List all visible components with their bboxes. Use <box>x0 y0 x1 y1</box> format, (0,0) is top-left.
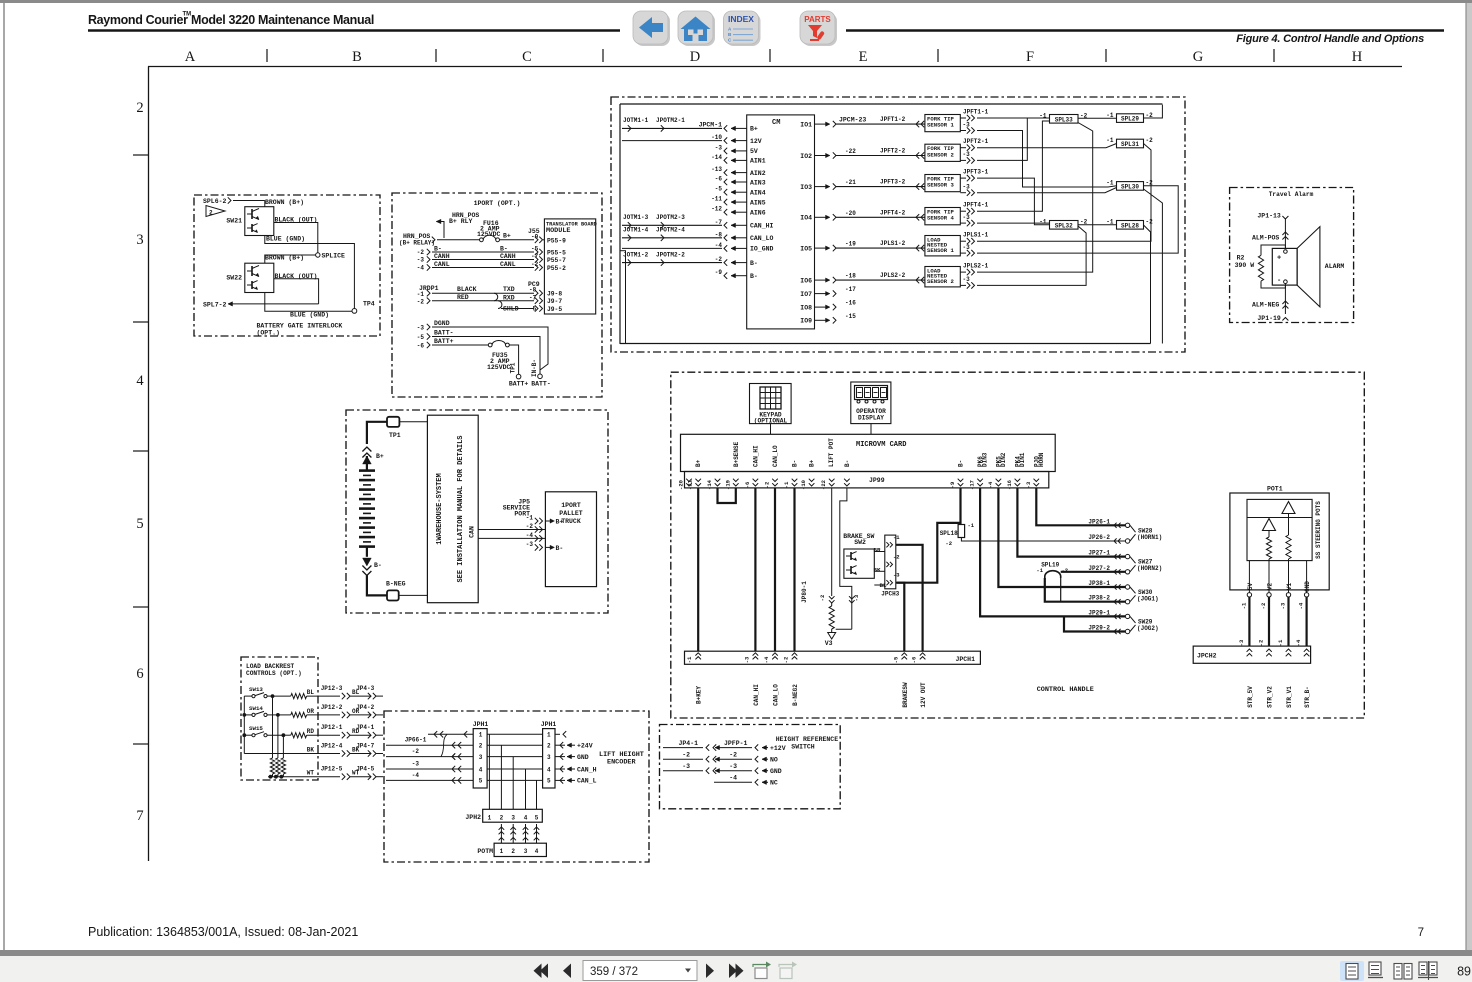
svg-text:-17: -17 <box>969 480 976 490</box>
svg-text:IO6: IO6 <box>800 277 812 284</box>
svg-text:IO5: IO5 <box>800 245 812 252</box>
svg-text:MODULE: MODULE <box>546 227 570 235</box>
svg-text:BATT+: BATT+ <box>434 338 454 345</box>
svg-text:1: 1 <box>500 848 504 855</box>
svg-text:TM: TM <box>183 12 192 18</box>
svg-text:B-: B- <box>556 545 564 552</box>
svg-text:CAN_LO: CAN_LO <box>772 445 779 467</box>
svg-text:JP26-1: JP26-1 <box>1088 518 1110 525</box>
svg-text:4: 4 <box>136 373 144 389</box>
svg-text:-10: -10 <box>711 134 722 141</box>
svg-text:AIN4: AIN4 <box>750 190 766 197</box>
svg-text:B-: B- <box>374 562 382 569</box>
svg-text:125VDC: 125VDC <box>477 231 501 238</box>
svg-text:J9-5: J9-5 <box>547 306 562 313</box>
svg-text:ALARM: ALARM <box>1325 263 1345 270</box>
svg-text:-16: -16 <box>1006 480 1013 490</box>
svg-text:IO3: IO3 <box>800 184 812 191</box>
svg-text:-4: -4 <box>987 481 994 488</box>
svg-text:-2: -2 <box>764 482 771 489</box>
svg-text:DGND: DGND <box>434 320 450 327</box>
svg-text:P55-5: P55-5 <box>547 249 566 256</box>
svg-text:-2: -2 <box>1062 567 1069 574</box>
svg-text:-4: -4 <box>1298 602 1305 609</box>
svg-text:-17: -17 <box>845 286 856 293</box>
svg-text:TP1: TP1 <box>389 432 401 439</box>
svg-text:-18: -18 <box>845 273 856 280</box>
svg-text:-4: -4 <box>715 242 723 249</box>
svg-text:SS STEERING POTS: SS STEERING POTS <box>1315 501 1322 559</box>
svg-text:-3: -3 <box>526 541 534 548</box>
svg-text:JOTM1-4: JOTM1-4 <box>623 227 649 234</box>
svg-text:AIN5: AIN5 <box>750 199 766 206</box>
svg-text:DIN3: DIN3 <box>982 452 989 467</box>
svg-text:SPL19: SPL19 <box>1041 562 1059 569</box>
svg-text:-3: -3 <box>963 276 971 283</box>
svg-text:1WAREHOUSE-SYSTEM: 1WAREHOUSE-SYSTEM <box>436 473 444 544</box>
svg-text:2: 2 <box>500 815 504 822</box>
svg-text:3: 3 <box>136 232 143 248</box>
svg-text:JPFT4-1: JPFT4-1 <box>963 202 989 209</box>
svg-text:(HORN2): (HORN2) <box>1137 565 1162 572</box>
svg-text:SW2: SW2 <box>854 539 866 546</box>
svg-text:CAN_H: CAN_H <box>577 766 597 773</box>
svg-text:BK: BK <box>874 566 881 573</box>
svg-text:PARTS: PARTS <box>804 15 831 24</box>
svg-text:2: 2 <box>136 100 143 116</box>
svg-text:WT: WT <box>307 770 315 777</box>
svg-text:SPL32: SPL32 <box>1055 222 1073 229</box>
svg-text:-2: -2 <box>526 523 534 530</box>
svg-text:BATT-: BATT- <box>434 330 454 337</box>
svg-text:JPFP-1: JPFP-1 <box>724 740 748 747</box>
svg-text:SENSOR 2: SENSOR 2 <box>927 151 954 158</box>
svg-text:SW14: SW14 <box>249 705 263 712</box>
svg-text:-6: -6 <box>715 176 723 183</box>
svg-text:JP29-1: JP29-1 <box>1088 609 1110 616</box>
svg-text:390 W: 390 W <box>1235 262 1255 269</box>
svg-text:5: 5 <box>535 815 539 822</box>
svg-text:STR_5V: STR_5V <box>1247 686 1254 708</box>
svg-text:-2: -2 <box>893 553 900 560</box>
svg-text:CONTROLS (OPT.): CONTROLS (OPT.) <box>246 670 302 677</box>
svg-text:AIN1: AIN1 <box>750 158 766 165</box>
svg-text:JP1-13: JP1-13 <box>1257 213 1281 220</box>
svg-text:-13: -13 <box>711 166 722 173</box>
svg-text:JPLS1-2: JPLS1-2 <box>880 240 906 247</box>
svg-text:5: 5 <box>479 778 483 785</box>
svg-text:B+: B+ <box>750 126 758 133</box>
svg-text:B-: B- <box>958 460 965 467</box>
svg-text:TP1: TP1 <box>510 362 517 373</box>
svg-text:B+: B+ <box>556 519 564 526</box>
svg-text:STR_V1: STR_V1 <box>1286 686 1293 708</box>
svg-text:JPLS1-1: JPLS1-1 <box>963 232 989 239</box>
svg-text:JP38-1: JP38-1 <box>1088 580 1110 587</box>
svg-text:LIFT POT: LIFT POT <box>828 438 835 467</box>
svg-text:JPCH1: JPCH1 <box>955 656 975 663</box>
svg-text:CAN_HI: CAN_HI <box>752 445 759 467</box>
svg-text:-1: -1 <box>1106 112 1114 119</box>
svg-text:-2: -2 <box>1146 219 1154 226</box>
svg-text:NO: NO <box>770 757 778 764</box>
svg-text:JP12-1: JP12-1 <box>321 724 343 731</box>
svg-text:-9: -9 <box>715 269 723 276</box>
svg-text:5V: 5V <box>750 148 758 155</box>
svg-text:4: 4 <box>547 766 551 773</box>
svg-text:SENSOR 4: SENSOR 4 <box>927 215 954 222</box>
svg-text:TRUCK: TRUCK <box>561 518 581 525</box>
svg-text:-21: -21 <box>845 179 856 186</box>
svg-text:SENSOR 1: SENSOR 1 <box>927 122 954 129</box>
svg-text:ALM-POS: ALM-POS <box>1252 235 1279 242</box>
svg-text:-3: -3 <box>715 144 723 151</box>
svg-text:-2: -2 <box>945 540 952 547</box>
svg-text:-3: -3 <box>853 594 860 601</box>
svg-text:-14: -14 <box>706 479 713 490</box>
svg-text:SW13: SW13 <box>249 686 263 693</box>
svg-text:-1: -1 <box>526 515 534 522</box>
svg-text:-2: -2 <box>417 299 425 306</box>
svg-text:LOAD BACKREST: LOAD BACKREST <box>246 663 295 670</box>
svg-text:-2: -2 <box>729 752 737 759</box>
svg-text:IO2: IO2 <box>800 153 812 160</box>
svg-text:-1: -1 <box>1277 639 1284 646</box>
svg-text:JPCH3: JPCH3 <box>881 591 899 598</box>
svg-text:2: 2 <box>209 210 213 217</box>
svg-text:CAN_L: CAN_L <box>577 778 597 785</box>
svg-text:BATTERY GATE INTERLOCK: BATTERY GATE INTERLOCK <box>257 323 343 330</box>
svg-text:-1: -1 <box>968 522 975 529</box>
svg-text:+24V: +24V <box>577 743 593 750</box>
svg-text:STR_B-: STR_B- <box>1304 686 1311 708</box>
svg-text:SW15: SW15 <box>249 725 263 732</box>
svg-text:JPFT3-2: JPFT3-2 <box>880 179 906 186</box>
svg-text:SPLICE: SPLICE <box>322 253 346 260</box>
svg-text:(HORN1): (HORN1) <box>1137 534 1162 541</box>
svg-text:CONTROL HANDLE: CONTROL HANDLE <box>1037 686 1094 694</box>
svg-text:JPH1: JPH1 <box>473 721 489 728</box>
svg-text:IO7: IO7 <box>800 291 812 298</box>
svg-text:2: 2 <box>479 743 483 750</box>
svg-text:-1: -1 <box>1036 567 1043 574</box>
svg-text:PALLET: PALLET <box>559 510 583 517</box>
svg-text:JPOTM2-4: JPOTM2-4 <box>656 227 685 234</box>
svg-text:BK: BK <box>352 747 360 754</box>
svg-text:A: A <box>185 49 196 65</box>
svg-text:4: 4 <box>524 815 528 822</box>
svg-text:P55-7: P55-7 <box>547 257 566 264</box>
svg-text:AIN3: AIN3 <box>750 179 766 186</box>
svg-text:2: 2 <box>511 848 515 855</box>
svg-text:BL: BL <box>307 689 315 696</box>
svg-text:359 / 372: 359 / 372 <box>590 966 638 978</box>
svg-text:Travel Alarm: Travel Alarm <box>1269 191 1314 198</box>
svg-text:B: B <box>352 49 362 65</box>
svg-text:3: 3 <box>547 754 551 761</box>
svg-text:-2: -2 <box>417 249 425 256</box>
svg-text:-2: -2 <box>819 595 826 602</box>
svg-text:JP27-2: JP27-2 <box>1088 565 1110 572</box>
svg-text:ENCODER: ENCODER <box>607 759 636 767</box>
svg-text:SENSOR 3: SENSOR 3 <box>927 182 954 189</box>
svg-text:R2: R2 <box>1237 255 1245 262</box>
svg-text:-5: -5 <box>417 334 425 341</box>
svg-text:-15: -15 <box>845 313 856 320</box>
svg-text:-3: -3 <box>963 151 971 158</box>
svg-text:GND: GND <box>577 754 589 761</box>
svg-text:-20: -20 <box>845 210 856 217</box>
svg-text:G: G <box>1193 49 1204 65</box>
svg-text:CANH: CANH <box>434 253 450 260</box>
svg-text:7: 7 <box>1418 927 1424 939</box>
svg-text:-5: -5 <box>892 656 899 663</box>
svg-text:JP12-2: JP12-2 <box>321 704 343 711</box>
svg-text:RD: RD <box>307 728 315 735</box>
svg-text:B-: B- <box>434 246 442 253</box>
svg-text:SPL18: SPL18 <box>940 530 958 537</box>
svg-text:1PORT (OPT.): 1PORT (OPT.) <box>474 200 521 207</box>
svg-text:SPL28: SPL28 <box>1121 222 1139 229</box>
svg-text:-14: -14 <box>711 154 722 161</box>
svg-text:IO_GND: IO_GND <box>750 246 774 253</box>
svg-text:3: 3 <box>511 815 515 822</box>
svg-text:BATT-: BATT- <box>531 381 551 388</box>
svg-text:-3: -3 <box>417 325 425 332</box>
svg-text:IO9: IO9 <box>800 318 812 325</box>
svg-text:BR: BR <box>874 547 881 554</box>
svg-text:JPCM-23: JPCM-23 <box>839 117 866 124</box>
svg-text:POTM: POTM <box>477 848 493 855</box>
svg-text:JPH1: JPH1 <box>541 721 557 728</box>
svg-text:-3: -3 <box>417 257 425 264</box>
svg-text:-22: -22 <box>820 480 827 490</box>
svg-text:CANH: CANH <box>500 253 516 260</box>
svg-text:-2: -2 <box>1260 603 1267 610</box>
svg-text:-3: -3 <box>729 763 737 770</box>
svg-text:B-: B- <box>500 246 508 253</box>
svg-text:HEIGHT REFERENCE: HEIGHT REFERENCE <box>776 736 839 743</box>
svg-text:DISPLAY: DISPLAY <box>858 415 884 422</box>
svg-text:12V OUT: 12V OUT <box>920 682 927 708</box>
svg-text:JPFT1-1: JPFT1-1 <box>963 108 989 115</box>
svg-text:JP1-19: JP1-19 <box>1257 315 1281 322</box>
svg-text:-3: -3 <box>412 761 420 768</box>
svg-text:-1: -1 <box>893 534 900 541</box>
svg-text:-12: -12 <box>711 206 722 213</box>
svg-text:B-NEG: B-NEG <box>386 581 406 588</box>
svg-text:GND: GND <box>770 768 782 775</box>
svg-text:BATT+: BATT+ <box>509 381 529 388</box>
svg-text:DIN2: DIN2 <box>1000 452 1007 467</box>
svg-text:7: 7 <box>136 808 143 824</box>
svg-text:BLACK: BLACK <box>457 286 477 293</box>
svg-text:(B+ RELAY): (B+ RELAY) <box>399 240 435 247</box>
svg-text:JPFT4-2: JPFT4-2 <box>880 209 906 216</box>
svg-text:BROWN (B+): BROWN (B+) <box>265 199 304 206</box>
svg-text:JPFT2-2: JPFT2-2 <box>880 148 906 155</box>
svg-text:BROWN (B+): BROWN (B+) <box>265 255 304 262</box>
svg-text:-3: -3 <box>963 214 971 221</box>
svg-text:-3: -3 <box>743 656 750 663</box>
svg-text:-1: -1 <box>1240 602 1247 609</box>
svg-text:-10: -10 <box>800 480 807 490</box>
svg-text:JOTM1-1: JOTM1-1 <box>623 117 649 124</box>
svg-text:12V: 12V <box>750 138 762 145</box>
svg-text:DIN1: DIN1 <box>1019 452 1026 467</box>
svg-text:JP99: JP99 <box>869 477 885 484</box>
svg-text:SPL6-2: SPL6-2 <box>203 198 227 205</box>
svg-text:INDEX: INDEX <box>728 14 754 24</box>
svg-text:SPL7-2: SPL7-2 <box>203 302 227 309</box>
svg-text:OR: OR <box>307 708 315 715</box>
svg-text:JOTM1-2: JOTM1-2 <box>623 251 649 258</box>
svg-text:-2: -2 <box>1258 640 1265 647</box>
svg-text:MICROVM CARD: MICROVM CARD <box>856 441 906 449</box>
svg-text:JPFT3-1: JPFT3-1 <box>963 169 989 176</box>
svg-text:IO8: IO8 <box>800 304 812 311</box>
svg-text:5V: 5V <box>1247 583 1254 591</box>
svg-text:-6: -6 <box>417 343 425 350</box>
svg-text:BK: BK <box>307 747 315 754</box>
svg-text:B-: B- <box>844 460 851 467</box>
svg-text:B+: B+ <box>809 459 816 467</box>
svg-text:B-NEG2: B-NEG2 <box>792 684 799 706</box>
svg-text:D: D <box>690 49 700 65</box>
svg-text:AIN2: AIN2 <box>750 170 766 177</box>
svg-text:SEE INSTALLATION MANUAL FOR DE: SEE INSTALLATION MANUAL FOR DETAILS <box>457 435 465 582</box>
svg-text:BLUE (GND): BLUE (GND) <box>290 312 329 319</box>
svg-text:+12V: +12V <box>770 745 786 752</box>
svg-text:SPL33: SPL33 <box>1055 116 1073 123</box>
svg-text:B+: B+ <box>695 459 702 467</box>
svg-text:(JOG1): (JOG1) <box>1137 595 1159 602</box>
svg-text:CAN_HI: CAN_HI <box>750 223 774 230</box>
svg-text:B-: B- <box>750 260 758 267</box>
svg-text:B+: B+ <box>503 233 511 240</box>
svg-text:89: 89 <box>1457 965 1471 979</box>
svg-text:JPH2: JPH2 <box>465 814 481 821</box>
svg-text:3: 3 <box>479 754 483 761</box>
svg-text:SW22: SW22 <box>226 275 242 282</box>
svg-text:2: 2 <box>547 743 551 750</box>
svg-text:3: 3 <box>524 848 528 855</box>
svg-text:F: F <box>1026 49 1034 65</box>
svg-text:-2: -2 <box>412 748 420 755</box>
svg-text:V1: V1 <box>1286 583 1293 591</box>
svg-text:H: H <box>1352 49 1363 65</box>
svg-text:JP12-5: JP12-5 <box>321 766 343 773</box>
svg-text:-3: -3 <box>1238 639 1245 646</box>
svg-text:-21: -21 <box>687 479 694 490</box>
svg-text:E: E <box>859 49 868 65</box>
svg-text:-3: -3 <box>893 572 900 579</box>
svg-text:Figure 4. Control Handle and: Figure 4. Control Handle and Options <box>1236 33 1424 45</box>
svg-text:JP12-3: JP12-3 <box>321 685 343 692</box>
svg-text:CAN: CAN <box>469 526 476 538</box>
svg-text:6: 6 <box>136 666 143 682</box>
svg-text:(OPT.): (OPT.) <box>257 330 280 337</box>
svg-text:AIN6: AIN6 <box>750 210 766 217</box>
svg-text:JP26-2: JP26-2 <box>1088 534 1110 541</box>
svg-text:JP80-1: JP80-1 <box>801 581 808 603</box>
svg-text:POT1: POT1 <box>1267 486 1283 493</box>
svg-text:-4: -4 <box>1295 639 1302 646</box>
svg-text:SPL30: SPL30 <box>1121 183 1139 190</box>
svg-text:P55-2: P55-2 <box>547 265 566 272</box>
svg-text:CAN_LO: CAN_LO <box>750 235 774 242</box>
svg-text:-19: -19 <box>845 241 856 248</box>
svg-text:TP4: TP4 <box>363 301 375 308</box>
svg-text:-: - <box>1277 277 1281 285</box>
svg-text:JPFT1-2: JPFT1-2 <box>880 116 906 123</box>
svg-text:-4: -4 <box>763 656 770 663</box>
svg-text:1: 1 <box>488 815 492 822</box>
svg-text:RED: RED <box>457 294 469 301</box>
svg-text:V2: V2 <box>1267 583 1274 591</box>
svg-text:J9-8: J9-8 <box>547 291 562 298</box>
svg-text:1PORT: 1PORT <box>561 502 581 509</box>
svg-text:-9: -9 <box>949 482 956 489</box>
svg-text:B+ RLY: B+ RLY <box>449 218 473 225</box>
svg-text:-3: -3 <box>1280 602 1287 609</box>
svg-text:STR_V2: STR_V2 <box>1267 686 1274 708</box>
svg-text:IO1: IO1 <box>800 121 812 128</box>
svg-text:RXD: RXD <box>503 295 515 302</box>
svg-text:JP29-2: JP29-2 <box>1088 625 1110 632</box>
svg-text:JP38-2: JP38-2 <box>1088 595 1110 602</box>
svg-text:IO4: IO4 <box>800 215 812 222</box>
svg-text:V3: V3 <box>825 640 833 647</box>
svg-text:SPL31: SPL31 <box>1121 141 1139 148</box>
svg-text:-22: -22 <box>845 148 856 155</box>
svg-text:GND: GND <box>1304 581 1311 592</box>
svg-text:-6: -6 <box>911 657 918 664</box>
svg-text:JPLS2-1: JPLS2-1 <box>963 263 989 270</box>
svg-text:RD: RD <box>352 728 360 735</box>
svg-text:-1: -1 <box>783 481 790 488</box>
svg-text:JP66-1: JP66-1 <box>405 737 427 744</box>
svg-text:BLUE (GND): BLUE (GND) <box>266 236 305 243</box>
svg-text:1: 1 <box>547 732 551 739</box>
svg-text:JPOTM2-3: JPOTM2-3 <box>656 214 685 221</box>
svg-text:JOTM1-3: JOTM1-3 <box>623 214 649 221</box>
svg-text:-4: -4 <box>417 265 425 272</box>
svg-text:J9-7: J9-7 <box>547 298 562 305</box>
svg-text:CAN_LO: CAN_LO <box>773 684 780 706</box>
svg-text:-3: -3 <box>963 244 971 251</box>
svg-text:-2: -2 <box>682 752 690 759</box>
svg-text:JPCH2: JPCH2 <box>1197 653 1217 660</box>
svg-text:SPL29: SPL29 <box>1121 116 1139 123</box>
svg-text:WT: WT <box>352 770 360 777</box>
svg-text:Publication: 1364853/001A, Iss: Publication: 1364853/001A, Issued: 08-Ja… <box>88 925 358 939</box>
svg-text:B+KEY: B+KEY <box>696 686 703 704</box>
svg-text:-1: -1 <box>1106 137 1114 144</box>
svg-text:4: 4 <box>535 848 539 855</box>
svg-text:-4: -4 <box>729 775 737 782</box>
svg-text:125VDC: 125VDC <box>487 364 511 371</box>
svg-text:JP27-1: JP27-1 <box>1088 550 1110 557</box>
svg-text:(JOG2): (JOG2) <box>1137 625 1159 632</box>
svg-text:-20: -20 <box>678 480 685 490</box>
svg-text:-5: -5 <box>715 186 723 193</box>
svg-text:ALM-NEG: ALM-NEG <box>1252 302 1279 309</box>
svg-text:1: 1 <box>479 732 483 739</box>
svg-text:-3: -3 <box>682 763 690 770</box>
svg-text:4: 4 <box>479 766 483 773</box>
svg-text:NC: NC <box>770 780 778 787</box>
